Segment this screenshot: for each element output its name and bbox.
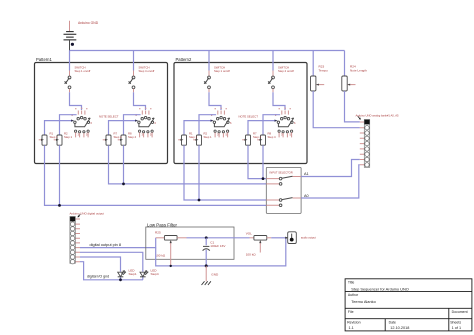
ground symbol	[202, 266, 211, 285]
svg-text:VOL: VOL	[246, 231, 252, 235]
title block text	[347, 281, 467, 330]
wire: audio return to gnd rail	[206, 239, 286, 266]
junction	[122, 183, 125, 186]
label: pot R8 Step 4 (Pattern2)	[268, 132, 277, 139]
svg-text:100 kΩ: 100 kΩ	[155, 253, 166, 257]
wire: bus to R23	[312, 51, 314, 77]
connector J2 Arduino digital bank: pin leads	[75, 219, 80, 262]
step cell 1: switch S1, rotary note select, pots R1 R2	[39, 51, 93, 146]
label: pot R8 Step 4	[128, 132, 137, 139]
label: R23 Tempo	[319, 65, 329, 73]
svg-text:Step1: Step1	[129, 272, 137, 276]
svg-text:12.10.2018: 12.10.2018	[390, 326, 409, 330]
Pattern1 group box	[35, 57, 168, 164]
potentiometer VOL	[246, 231, 272, 252]
svg-text:Step 4 on/off: Step 4 on/off	[139, 69, 155, 73]
wire: R25 to VOL	[187, 237, 250, 239]
label: pot R7 Step 4	[114, 132, 123, 139]
junction	[119, 278, 122, 281]
wire: bus to R24	[344, 51, 346, 77]
svg-text:Sheets: Sheets	[450, 321, 461, 325]
step cell 3: switch S3, rotary note select, pots R1 R2	[178, 51, 232, 146]
label: LED Step1	[129, 269, 137, 276]
R25 wiper to gnd rail	[170, 240, 172, 266]
wire: pin 8 to low pass filter	[80, 238, 156, 248]
svg-text:Tempo: Tempo	[319, 68, 329, 72]
svg-text:R25: R25	[155, 231, 161, 235]
junction: battery to gnd bus	[71, 43, 74, 46]
wire: R24 to analog connector	[345, 91, 360, 122]
wire: pot R8 drop (Pattern2)	[262, 145, 264, 178]
connector J1: pin 1 arrow	[358, 116, 361, 119]
junction	[198, 199, 201, 202]
step cell 2: switch S2, rotary note select, pots R7 R8	[103, 51, 157, 146]
svg-text:Document: Document	[452, 310, 468, 314]
svg-text:File: File	[348, 310, 354, 314]
svg-text:GND: GND	[211, 272, 219, 276]
potentiometer R23	[311, 76, 325, 91]
svg-text:Pattern2: Pattern2	[176, 57, 193, 62]
wire: pot R2 drop (Pattern2)	[198, 145, 200, 200]
wire: top gnd bus	[70, 50, 345, 52]
wire: pot R2 drop	[59, 145, 61, 205]
wire: Pattern2 cell2 output bus to input selector	[248, 145, 266, 178]
svg-text:Step 4: Step 4	[128, 135, 137, 139]
potentiometer R24	[342, 76, 356, 91]
wire: selector to analog pin A0	[301, 165, 360, 198]
label: pot R2 Step 1 (Pattern2)	[204, 132, 213, 139]
svg-text:Step 1 on/off: Step 1 on/off	[75, 69, 91, 73]
audio jack J3	[288, 232, 297, 244]
wire: R23 to analog connector	[313, 91, 360, 128]
svg-text:audio output: audio output	[301, 236, 316, 240]
svg-text:Arduino UNO analog bank#1 A0..: Arduino UNO analog bank#1 A0..A5	[356, 113, 400, 117]
svg-text:Step 4: Step 4	[253, 135, 262, 139]
junction	[205, 264, 208, 267]
svg-text:Arduino UNO digital output: Arduino UNO digital output	[70, 211, 105, 215]
label: switch S1 SWITCH Step 1 on/off	[75, 65, 91, 73]
wire: selector to analog pin A1	[301, 160, 360, 177]
connector J1: body and pins	[364, 120, 369, 168]
LED D1 (Step1)	[118, 271, 126, 277]
svg-text:100uF 16V: 100uF 16V	[210, 244, 226, 248]
LED D2 (Step4)	[140, 271, 148, 277]
svg-text:Step 1: Step 1	[50, 135, 59, 139]
low pass filter box	[146, 222, 234, 259]
label: LED Step4	[151, 269, 159, 276]
capacitor C1	[203, 238, 210, 266]
svg-text:A1: A1	[304, 172, 309, 176]
svg-text:1 of 1: 1 of 1	[452, 326, 462, 330]
junction	[170, 265, 172, 267]
svg-text:Arduino GND: Arduino GND	[78, 21, 99, 25]
svg-text:NOTE SELECT: NOTE SELECT	[99, 114, 119, 118]
svg-text:Date: Date	[389, 321, 396, 325]
svg-text:NOTE SELECT: NOTE SELECT	[239, 114, 259, 118]
svg-text:Step 1: Step 1	[189, 135, 198, 139]
wire: gnd return bus for LEDs	[80, 262, 143, 280]
svg-text:Step 1: Step 1	[64, 135, 73, 139]
svg-text:digital I/O gnd: digital I/O gnd	[87, 275, 109, 279]
connector J1 Arduino analog bank: pin leads	[360, 122, 365, 165]
label: C1 100uF 16V	[210, 240, 226, 247]
switch SW-A (input select A1)	[266, 176, 301, 185]
svg-text:Step Sequencer for Arduino UNO: Step Sequencer for Arduino UNO	[351, 286, 409, 291]
step cell 4: switch S4, rotary note select, pots R7 R8	[242, 51, 296, 146]
label: R24 Note Length	[350, 65, 367, 73]
svg-text:Note Length: Note Length	[350, 68, 367, 72]
svg-text:Pattern1: Pattern1	[36, 57, 53, 62]
svg-text:Teemu Alanko: Teemu Alanko	[351, 299, 375, 304]
svg-text:INPUT SELECTOR: INPUT SELECTOR	[270, 170, 293, 174]
connector J2: body and pins	[70, 217, 75, 264]
svg-text:Step4: Step4	[151, 272, 159, 276]
label: pot R2 Step 1	[64, 132, 73, 139]
svg-text:Step 1: Step 1	[204, 135, 213, 139]
junction	[205, 236, 208, 239]
battery B1 (Arduino GND supply)	[64, 21, 77, 51]
svg-text:Step 1 on/off: Step 1 on/off	[214, 69, 230, 73]
wire: Pattern1 cell1 output bus to input selector	[45, 145, 267, 205]
label: pot R1 Step 1 (Pattern2)	[189, 132, 198, 139]
connector J2: pin 1 arrow	[78, 214, 81, 217]
wire: Pattern2 cell1 output bus to input selector	[184, 145, 266, 200]
wire: pot R8 drop	[123, 145, 125, 184]
svg-text:1.1: 1.1	[349, 326, 354, 330]
wire: Pattern1 cell2 output bus to input selector	[109, 145, 267, 184]
svg-text:digital output pin 8: digital output pin 8	[90, 242, 122, 247]
wire: gnd rail to R25/pin8 branch	[156, 248, 207, 266]
wire: digital pin to LED Step4	[80, 252, 143, 271]
wire: VOL to audio jack (with arrow)	[271, 237, 288, 239]
svg-text:Step 4: Step 4	[268, 135, 277, 139]
title block	[345, 279, 472, 331]
label: pot R7 Step 4 (Pattern2)	[253, 132, 262, 139]
label: switch S2 SWITCH Step 4 on/off	[139, 65, 155, 73]
label: pot R1 Step 1	[50, 132, 59, 139]
switch SW-B (input select A0)	[266, 198, 301, 207]
svg-text:Title: Title	[348, 281, 355, 285]
resistor R25	[155, 231, 187, 241]
svg-text:100 kΩ: 100 kΩ	[246, 252, 257, 256]
svg-text:Revision: Revision	[347, 321, 360, 325]
svg-text:Low Pass Filter: Low Pass Filter	[147, 222, 178, 227]
wire: digital pin to LED Step1	[80, 257, 121, 272]
Pattern2 group box	[174, 57, 307, 164]
input selector box	[266, 167, 301, 213]
svg-text:Step 4 on/off: Step 4 on/off	[278, 69, 294, 73]
svg-text:Author: Author	[348, 293, 359, 297]
svg-text:Step 4: Step 4	[114, 135, 123, 139]
junction	[58, 204, 61, 207]
label: switch S3 SWITCH Step 1 on/off	[214, 65, 230, 73]
junction	[262, 177, 265, 180]
label: switch S4 SWITCH Step 4 on/off	[278, 65, 294, 73]
